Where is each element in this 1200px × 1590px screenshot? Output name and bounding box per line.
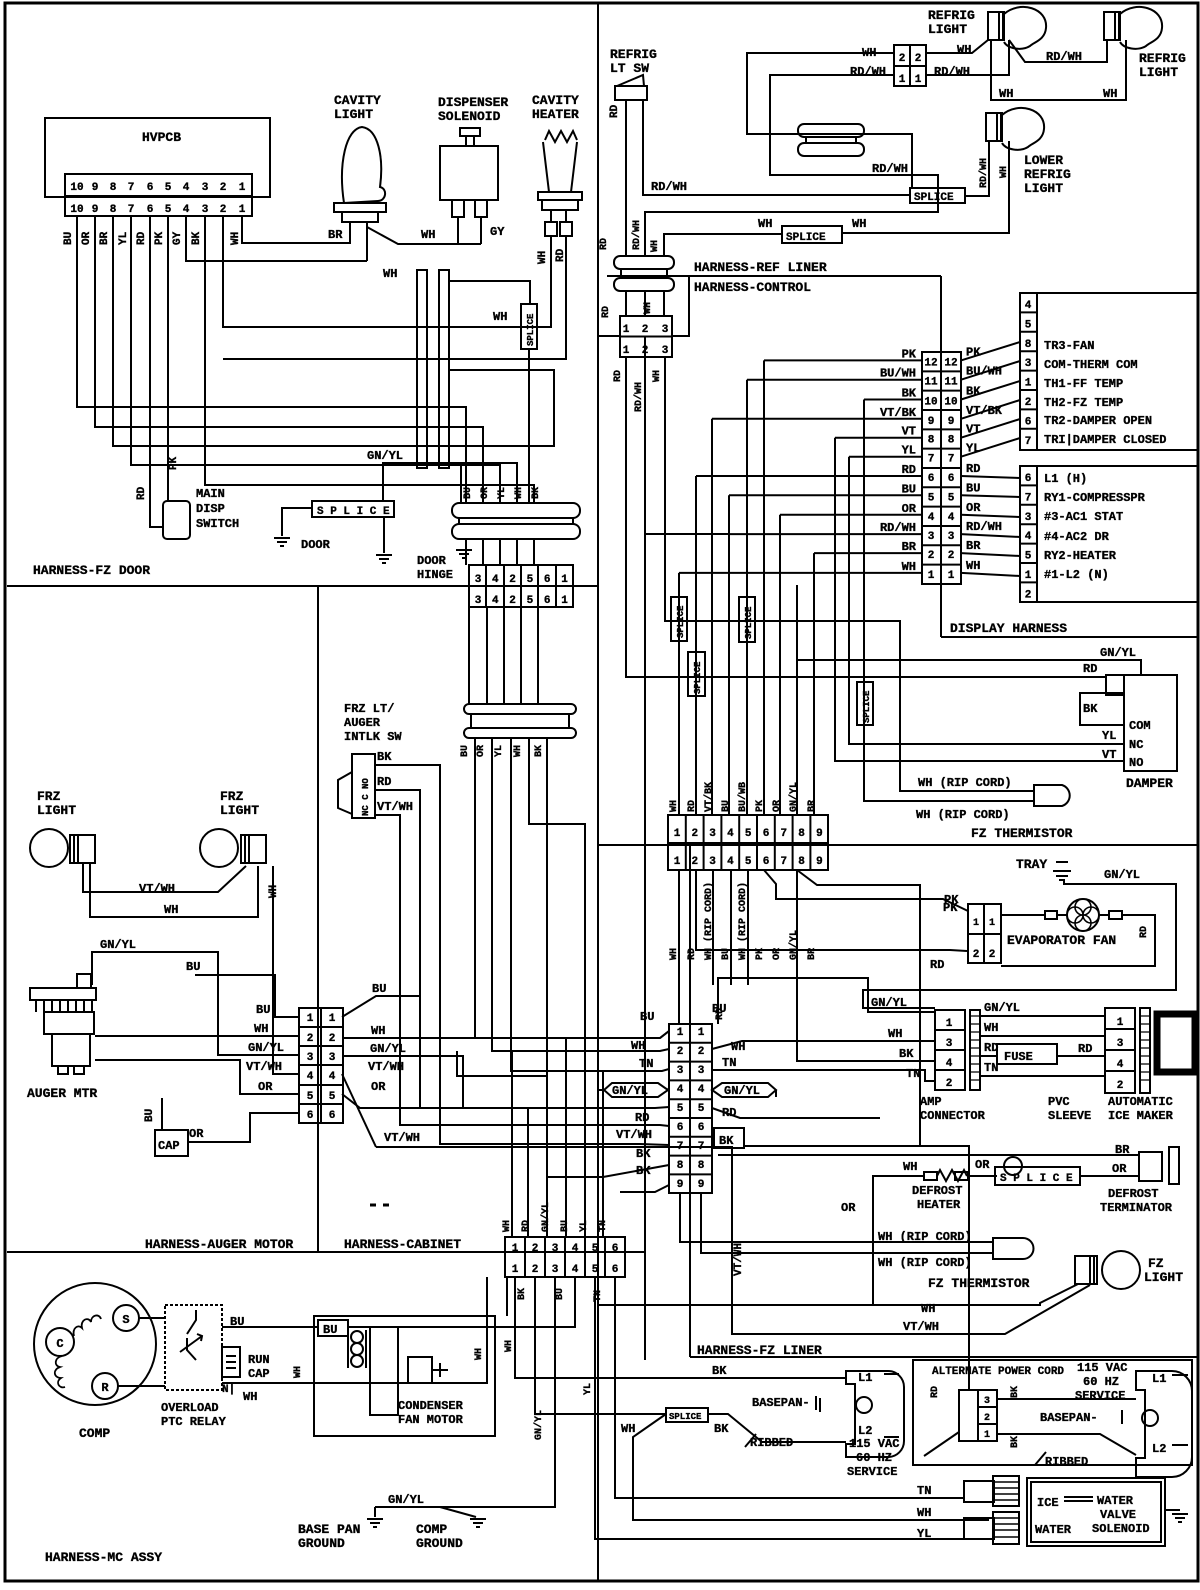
defrost heater resistor: [924, 1172, 937, 1180]
svg-text:8: 8: [677, 1160, 684, 1172]
svg-text:FRZ LT/: FRZ LT/: [344, 702, 394, 716]
wire water valve to ground: [1165, 1509, 1180, 1511]
wire RD/WH 2x2 left lead: [645, 75, 938, 256]
svg-text:1: 1: [973, 918, 979, 929]
svg-text:RD/WH: RD/WH: [872, 162, 908, 176]
water valve coil 1: [964, 1481, 994, 1502]
door hinge connector: [469, 565, 573, 607]
svg-text:SWITCH: SWITCH: [196, 517, 239, 531]
svg-text:WH: WH: [852, 217, 866, 231]
svg-text:YL: YL: [497, 487, 508, 499]
svg-text:6: 6: [329, 1110, 336, 1122]
svg-text:1: 1: [329, 1013, 336, 1025]
svg-text:VT: VT: [966, 423, 980, 437]
svg-text:WH: WH: [474, 1348, 485, 1360]
svg-text:9: 9: [698, 1179, 705, 1191]
run cap: [222, 1347, 240, 1377]
svg-text:1: 1: [928, 570, 935, 582]
wire GN/YL right stub: [775, 1090, 777, 1097]
svg-text:WH: WH: [1103, 87, 1117, 101]
ice maker connector: [1105, 1008, 1135, 1093]
wire WH splice diag to water valve: [633, 1414, 989, 1520]
svg-text:RIBBED: RIBBED: [1045, 1455, 1088, 1469]
svg-text:7: 7: [948, 454, 955, 466]
wire PK pin5 to main disp switch: [167, 216, 169, 501]
svg-text:BK: BK: [534, 745, 545, 757]
svg-text:RD: RD: [1083, 662, 1097, 676]
svg-text:2: 2: [691, 828, 698, 840]
svg-text:2: 2: [642, 345, 649, 357]
svg-text:LIGHT: LIGHT: [1144, 1270, 1183, 1285]
door hinge ground: [456, 550, 472, 558]
svg-text:3: 3: [1025, 512, 1032, 524]
cabinet 6 pin connector bottom: [505, 1237, 625, 1277]
svg-text:DOOR: DOOR: [301, 538, 331, 552]
svg-text:BK: BK: [719, 1134, 734, 1148]
wire RD right row5: [712, 1108, 880, 1118]
frz light 1 bulb: [30, 829, 68, 867]
svg-text:LIGHT: LIGHT: [37, 803, 76, 818]
condenser motor winding: [351, 1331, 363, 1343]
svg-text:LOWER: LOWER: [1024, 153, 1063, 168]
display harness box 1: [1020, 293, 1198, 450]
svg-text:BR: BR: [99, 231, 111, 245]
svg-text:RD: RD: [136, 231, 148, 245]
svg-text:HARNESS-REF LINER: HARNESS-REF LINER: [694, 260, 827, 275]
svg-text:GN/YL: GN/YL: [1100, 646, 1136, 660]
frz light 2 bulb: [200, 829, 238, 867]
svg-text:RY2-HEATER: RY2-HEATER: [1044, 549, 1117, 563]
wire comp ground diagonal: [440, 1507, 476, 1517]
svg-text:5: 5: [698, 1103, 705, 1115]
svg-text:WH (RIP CORD): WH (RIP CORD): [918, 776, 1012, 790]
svg-text:1: 1: [239, 182, 246, 194]
svg-text:4: 4: [698, 1084, 705, 1096]
wire WH pin1 to cavity light: [242, 216, 350, 243]
svg-text:GN/YL: GN/YL: [100, 938, 136, 952]
svg-text:NO: NO: [1129, 756, 1143, 770]
svg-text:4: 4: [946, 1058, 953, 1070]
HVPCB connector pin rows: [65, 174, 252, 216]
splice refrig 2: [782, 226, 842, 243]
svg-text:6: 6: [147, 204, 154, 216]
svg-text:#3-AC1 STAT: #3-AC1 STAT: [1044, 510, 1123, 524]
damper BK bracket: [1080, 693, 1124, 725]
svg-text:6: 6: [928, 473, 935, 485]
connector 1-2-3 ref liner: [620, 316, 672, 357]
svg-text:L2: L2: [858, 1424, 872, 1438]
wire RD below 1-2-3 connector to damper: [626, 357, 1106, 677]
ribbed tick: [745, 1434, 756, 1447]
section divider harness-ref-liner / harness-control: [607, 275, 941, 277]
svg-text:BR: BR: [1115, 1143, 1130, 1157]
diagonal wires display connector to box1: [961, 342, 1020, 360]
svg-text:8: 8: [1025, 339, 1032, 351]
wire GN/YL amp to ice maker: [980, 1015, 1105, 1017]
svg-text:BU: BU: [555, 1288, 566, 1300]
svg-text:1: 1: [561, 595, 568, 607]
wire BU branch to bottom connector pin4: [565, 1038, 567, 1237]
svg-text:60 HZ: 60 HZ: [1083, 1375, 1119, 1389]
wire BK capsule down: [547, 738, 603, 1177]
svg-text:CONDENSER: CONDENSER: [398, 1399, 464, 1413]
svg-text:HARNESS-MC ASSY: HARNESS-MC ASSY: [45, 1550, 162, 1565]
wire VT/WH intlk switch: [375, 815, 614, 1125]
wire WH refrig light1 to light2: [991, 40, 1126, 100]
svg-text:BK: BK: [636, 1147, 651, 1161]
svg-text:ICE: ICE: [1037, 1496, 1059, 1510]
svg-text:BU: BU: [560, 1220, 571, 1232]
svg-text:1: 1: [307, 1013, 314, 1025]
svg-text:6: 6: [612, 1264, 619, 1276]
svg-text:2: 2: [642, 324, 649, 336]
wire VT/WH long to fz light: [376, 1147, 1090, 1334]
door conduit bars: [417, 270, 427, 468]
svg-text:3: 3: [677, 1065, 684, 1077]
svg-text:2: 2: [698, 1046, 705, 1058]
svg-text:9: 9: [677, 1179, 684, 1191]
svg-text:VT: VT: [1102, 748, 1116, 762]
wire WH cavity light to dispenser solenoid: [367, 227, 481, 244]
svg-text:5: 5: [307, 1091, 314, 1103]
svg-text:REFRIG: REFRIG: [610, 47, 657, 62]
svg-text:8: 8: [698, 1160, 705, 1172]
svg-text:OVERLOAD: OVERLOAD: [161, 1401, 219, 1415]
splice control 1: [671, 597, 687, 641]
svg-text:2: 2: [946, 1078, 953, 1090]
svg-text:6: 6: [677, 1122, 684, 1134]
svg-text:5: 5: [745, 828, 752, 840]
svg-text:WH: WH: [888, 1027, 902, 1041]
svg-text:RD: RD: [635, 1111, 649, 1125]
svg-text:REFRIG: REFRIG: [1139, 51, 1186, 66]
svg-text:OR: OR: [476, 745, 487, 757]
svg-text:2: 2: [1025, 589, 1032, 601]
svg-text:3: 3: [709, 856, 716, 868]
svg-text:RD: RD: [930, 958, 944, 972]
compressor S terminal: [113, 1305, 139, 1331]
svg-text:BK: BK: [966, 385, 981, 399]
svg-text:NC: NC: [1129, 738, 1143, 752]
svg-text:10: 10: [70, 204, 83, 216]
svg-text:WH: WH: [731, 1040, 745, 1054]
svg-text:4: 4: [329, 1071, 336, 1083]
svg-text:8: 8: [928, 435, 935, 447]
svg-text:3: 3: [202, 204, 209, 216]
svg-text:VT/BK: VT/BK: [703, 782, 715, 812]
svg-text:5: 5: [745, 856, 752, 868]
wire BK pin3 to door hinge: [205, 216, 534, 503]
svg-text:BK: BK: [517, 1288, 528, 1300]
svg-text:3: 3: [928, 531, 935, 543]
svg-text:VT/WH: VT/WH: [616, 1128, 652, 1142]
svg-text:WH (RIP CORD): WH (RIP CORD): [916, 808, 1010, 822]
wire BK alt connector to plug L1: [997, 1398, 1136, 1400]
svg-text:3: 3: [698, 1065, 705, 1077]
svg-text:WH: WH: [371, 1024, 385, 1038]
svg-text:9: 9: [92, 182, 99, 194]
wire bus auger row4 VT/WH right: [342, 1074, 376, 1147]
svg-text:2: 2: [509, 574, 516, 586]
svg-text:WH: WH: [966, 559, 980, 573]
alternate cord connector 3 pin: [959, 1390, 997, 1441]
svg-text:PTC RELAY: PTC RELAY: [161, 1415, 227, 1429]
svg-text:CONNECTOR: CONNECTOR: [920, 1109, 986, 1123]
svg-text:10: 10: [924, 397, 937, 409]
svg-text:1: 1: [915, 74, 922, 86]
svg-text:4: 4: [492, 595, 499, 607]
svg-text:6: 6: [1025, 416, 1032, 428]
amp connector: [935, 1010, 965, 1090]
svg-text:AUTOMATIC: AUTOMATIC: [1108, 1095, 1173, 1109]
svg-text:CAVITY: CAVITY: [334, 93, 381, 108]
GN/YL callout right: [712, 1083, 776, 1097]
svg-text:3: 3: [662, 324, 669, 336]
svg-text:1: 1: [948, 570, 955, 582]
svg-text:BU/WB: BU/WB: [737, 782, 749, 812]
svg-text:S P L I C E: S P L I C E: [1000, 1173, 1073, 1185]
wire col3 rip cord stub: [712, 870, 714, 985]
wire TN into amp: [712, 1070, 935, 1081]
display connector 12 pin: [922, 352, 961, 584]
wire WH fz light: [598, 1284, 1078, 1305]
svg-text:11: 11: [944, 377, 958, 389]
ice maker sleeve bar: [1140, 1008, 1150, 1093]
svg-text:BR: BR: [902, 540, 917, 554]
connector 9 pin row: [668, 815, 828, 870]
svg-text:5: 5: [1025, 551, 1032, 563]
svg-text:2: 2: [1025, 397, 1032, 409]
wire splice door left lead to ground: [282, 508, 312, 536]
svg-text:FRZ: FRZ: [37, 789, 61, 804]
svg-text:GY: GY: [490, 225, 505, 239]
svg-text:BU: BU: [902, 482, 916, 496]
svg-text:3: 3: [475, 595, 482, 607]
wires conduit to 1-2-3 connector: [625, 291, 627, 316]
svg-text:C: C: [56, 1337, 63, 1351]
svg-text:2: 2: [915, 53, 922, 65]
wire WH auger motor to connector: [95, 1035, 299, 1037]
svg-text:WH: WH: [650, 240, 661, 252]
svg-text:BK: BK: [377, 750, 392, 764]
svg-text:OR: OR: [371, 1080, 386, 1094]
svg-text:4: 4: [572, 1264, 579, 1276]
wire comp S to relay: [139, 1317, 165, 1319]
svg-text:S: S: [122, 1313, 129, 1327]
wire YL row7 to damper: [849, 456, 922, 458]
svg-text:DISPENSER: DISPENSER: [438, 95, 508, 110]
svg-text:10: 10: [70, 182, 83, 194]
wires display connector to box2: [961, 476, 1020, 478]
svg-text:BK: BK: [714, 1422, 729, 1436]
cavity heater element: [545, 131, 577, 142]
svg-text:AUGER MTR: AUGER MTR: [27, 1086, 97, 1101]
svg-text:PVC: PVC: [1048, 1095, 1070, 1109]
svg-text:RUN: RUN: [248, 1353, 270, 1367]
svg-text:SERVICE: SERVICE: [847, 1465, 897, 1479]
damper connector box: [1106, 675, 1124, 695]
wire YL pin7 to door hinge: [131, 216, 500, 503]
svg-text:VT/WH: VT/WH: [368, 1060, 404, 1074]
svg-text:3: 3: [329, 1052, 336, 1064]
svg-text:1: 1: [1117, 1017, 1124, 1029]
fuse: [997, 1044, 1057, 1064]
svg-text:OR: OR: [480, 487, 491, 499]
svg-text:RD: RD: [377, 775, 391, 789]
svg-text:TRAY: TRAY: [1016, 857, 1047, 872]
svg-text:GN/YL: GN/YL: [388, 1493, 424, 1507]
svg-text:INTLK SW: INTLK SW: [344, 730, 402, 744]
wire bus auger row3 GN/YL right: [342, 1056, 463, 1108]
svg-text:HARNESS-FZ DOOR: HARNESS-FZ DOOR: [33, 563, 150, 578]
harness-fz liner left edge: [689, 845, 691, 1357]
wire col4 BU stub: [730, 870, 732, 985]
wire GN/YL branch to bottom connector pin3: [457, 1051, 547, 1237]
wire rip cord 2 lower: [701, 1193, 993, 1253]
svg-text:WATER: WATER: [1097, 1494, 1134, 1508]
wire bus auger row2 WH right: [342, 1031, 669, 1038]
svg-text:RD/WH: RD/WH: [631, 220, 643, 250]
svg-text:4: 4: [572, 1243, 579, 1255]
svg-text:PK: PK: [168, 456, 180, 470]
HVPCB board box: [45, 118, 270, 197]
wire BR pin8: [113, 216, 554, 446]
svg-text:OR: OR: [772, 800, 783, 812]
wire OR pin9 to door hinge: [95, 216, 483, 503]
wire WH into amp: [712, 1041, 935, 1049]
svg-text:9: 9: [816, 828, 823, 840]
svg-text:6: 6: [307, 1110, 314, 1122]
svg-text:TN: TN: [917, 1484, 931, 1498]
svg-text:RD: RD: [601, 306, 612, 318]
svg-text:BK: BK: [191, 231, 203, 245]
svg-text:4: 4: [727, 828, 734, 840]
svg-text:6: 6: [763, 856, 770, 868]
svg-text:WH: WH: [902, 560, 916, 574]
svg-text:WH: WH: [513, 745, 524, 757]
wire YL to water valve: [595, 1277, 989, 1539]
wire WH pin2 to splice: [535, 1277, 666, 1414]
svg-text:1: 1: [989, 918, 995, 929]
svg-text:YL: YL: [902, 444, 916, 458]
svg-text:VT/WH: VT/WH: [903, 1320, 939, 1334]
svg-text:COMP: COMP: [416, 1522, 447, 1537]
wire col5 rip cord stub: [747, 870, 749, 985]
svg-text:6: 6: [147, 182, 154, 194]
compressor winding 2: [55, 1356, 65, 1387]
svg-text:OR: OR: [258, 1080, 273, 1094]
svg-text:6: 6: [1025, 473, 1032, 485]
section divider vertical x=598: [597, 3, 599, 1581]
svg-text:DISP: DISP: [196, 502, 225, 516]
splice defrost: [995, 1167, 1080, 1185]
ground door splice left: [274, 538, 290, 546]
svg-text:YL: YL: [118, 231, 130, 245]
svg-text:SPLICE: SPLICE: [862, 690, 872, 723]
svg-text:5: 5: [527, 595, 534, 607]
refrig light switch: [615, 86, 647, 100]
splice refrig 1: [910, 188, 965, 203]
svg-text:WH (RIP CORD): WH (RIP CORD): [878, 1256, 972, 1270]
svg-text:LT SW: LT SW: [610, 61, 649, 76]
wire basepan tick alt: [1121, 1410, 1123, 1424]
svg-text:12: 12: [944, 357, 957, 369]
svg-text:RD: RD: [136, 486, 148, 500]
compressor circle: [34, 1283, 156, 1405]
wire TN branch to bottom connector pin6: [602, 1071, 604, 1237]
svg-text:HINGE: HINGE: [417, 568, 453, 582]
svg-text:2: 2: [307, 1033, 314, 1045]
wires door hinge to fz conduit: [468, 607, 470, 704]
frz lt auger intlk switch: [352, 754, 375, 818]
svg-text:PK: PK: [944, 893, 959, 907]
svg-text:WH: WH: [999, 87, 1013, 101]
svg-text:L2: L2: [1152, 1442, 1166, 1456]
svg-text:OR: OR: [1112, 1162, 1127, 1176]
svg-text:3: 3: [552, 1264, 559, 1276]
svg-text:1: 1: [623, 324, 630, 336]
svg-text:8: 8: [110, 182, 117, 194]
wire GN/YL pin3 to grounds: [375, 1277, 555, 1507]
display harness box 2: [1020, 466, 1198, 602]
svg-text:LIGHT: LIGHT: [220, 803, 259, 818]
svg-text:RD/WH: RD/WH: [966, 520, 1002, 534]
svg-text:OR: OR: [189, 1127, 204, 1141]
splice control 2: [739, 597, 755, 642]
svg-text:YL: YL: [917, 1527, 931, 1541]
wire base pan ground stem: [374, 1507, 376, 1517]
svg-text:OR: OR: [902, 502, 917, 516]
svg-text:HVPCB: HVPCB: [142, 130, 181, 145]
compressor C terminal: [46, 1328, 74, 1356]
svg-text:WH: WH: [243, 1390, 257, 1404]
wire evap fan top: [1001, 914, 1045, 916]
wire splice defrost to terminator: [1080, 1175, 1139, 1177]
svg-text:GN/YL: GN/YL: [788, 782, 800, 812]
svg-text:4: 4: [492, 574, 499, 586]
svg-text:MAIN: MAIN: [196, 487, 225, 501]
svg-text:LIGHT: LIGHT: [1024, 181, 1063, 196]
svg-text:OR: OR: [841, 1201, 856, 1215]
plug 115vac left: [846, 1371, 904, 1457]
wire WH frz lights: [90, 863, 258, 917]
svg-text:BU: BU: [712, 1002, 726, 1016]
svg-text:8: 8: [110, 204, 117, 216]
svg-text:7: 7: [698, 1141, 705, 1153]
wire BK into alt connector from above: [744, 1146, 969, 1390]
svg-text:RY1-COMPRESSPR: RY1-COMPRESSPR: [1044, 491, 1146, 505]
svg-text:N|: N|: [222, 1384, 235, 1396]
wire RD/WH refrig light1 to light2: [1009, 40, 1107, 62]
wire RD intlk switch: [375, 790, 612, 1108]
wire TN amp to ice maker: [980, 1075, 1105, 1077]
svg-text:1: 1: [677, 1027, 684, 1039]
svg-text:BASEPAN-: BASEPAN-: [752, 1396, 810, 1410]
svg-text:BR: BR: [807, 800, 818, 812]
svg-text:5: 5: [928, 492, 935, 504]
svg-text:CAP: CAP: [158, 1139, 180, 1153]
pvc sleeve hatches: [970, 1016, 980, 1080]
svg-text:BU: BU: [640, 1010, 654, 1024]
svg-text:BK: BK: [899, 1047, 914, 1061]
wire WH 2x2 left lead: [747, 53, 912, 188]
connector 2x2 refrig lights: [894, 45, 926, 86]
plug 115vac right: [1136, 1371, 1192, 1477]
wire WH defrost heater feed: [873, 1176, 924, 1305]
wire evap fan loop: [1001, 915, 1155, 966]
refrig light 2 bulb: [1104, 12, 1120, 40]
svg-text:NC C NO: NC C NO: [361, 778, 371, 816]
